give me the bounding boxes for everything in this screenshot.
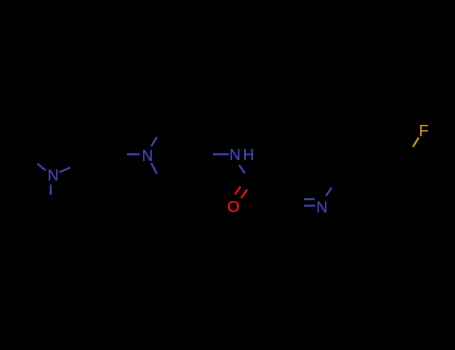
wire NH to piperidine C4 (horizontal half-bond)	[213, 153, 229, 155]
wire N1 to propyl chain C1 (half-bond)	[59, 168, 70, 173]
wire N2 to ring carbon upper-right (half-bond)	[151, 137, 157, 146]
wire N1 to methyl CH3 (downward half-bond)	[50, 185, 52, 195]
wire N2 to chain C3 (horizontal half-bond)	[127, 153, 140, 155]
wire C=O double bond secondary stroke	[235, 187, 240, 195]
svg-text:N: N	[229, 147, 240, 164]
wire pyridine N=C2 double bond main stroke	[304, 205, 315, 207]
wire pyridine N=C2 double bond secondary stroke	[304, 198, 315, 200]
wire C=O double bond main stroke	[241, 190, 247, 199]
wire F to phenyl carbon (half-bond)	[413, 138, 419, 147]
wire N2 to ring carbon lower-right (half-bond)	[151, 163, 157, 174]
svg-text:H: H	[243, 147, 254, 164]
svg-text:F: F	[419, 123, 429, 140]
svg-text:N: N	[47, 168, 58, 185]
wire pyridine N to C6 (half-bond upper-right)	[326, 188, 332, 196]
wire N1 to methyl CH3 (upper-left half-bond)	[37, 164, 45, 171]
svg-text:O: O	[227, 199, 239, 216]
svg-text:N: N	[142, 148, 153, 165]
svg-text:N: N	[316, 199, 327, 216]
wire NH to carbonyl carbon (half-bond)	[239, 165, 245, 174]
